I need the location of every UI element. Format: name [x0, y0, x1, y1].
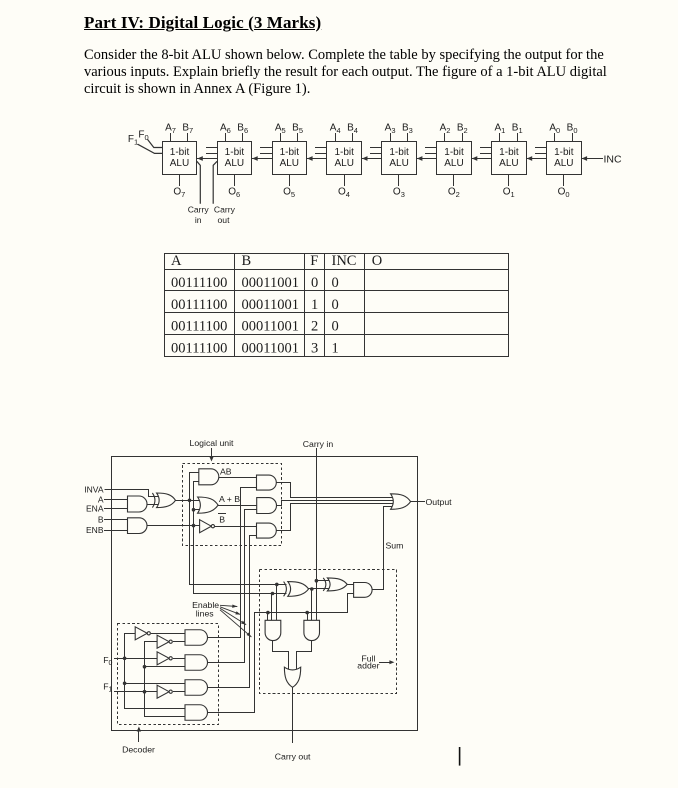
svg-text:1: 1	[109, 687, 113, 694]
svg-text:Sum: Sum	[386, 540, 404, 550]
svg-text:B4: B4	[347, 123, 358, 136]
svg-text:B7: B7	[182, 123, 193, 136]
svg-text:AB: AB	[220, 466, 232, 476]
svg-text:ALU: ALU	[444, 158, 463, 169]
svg-text:1-bit: 1-bit	[170, 147, 190, 158]
svg-text:ALU: ALU	[389, 158, 408, 169]
svg-text:A0: A0	[549, 123, 560, 136]
svg-text:O7: O7	[173, 186, 185, 199]
svg-text:0: 0	[332, 297, 339, 313]
svg-text:Decoder: Decoder	[122, 744, 155, 754]
svg-text:lines: lines	[196, 608, 215, 618]
svg-text:1-bit: 1-bit	[389, 147, 409, 158]
svg-text:ALU: ALU	[499, 158, 518, 169]
svg-text:O1: O1	[503, 186, 515, 199]
svg-text:O3: O3	[393, 186, 405, 199]
svg-text:ALU: ALU	[334, 158, 353, 169]
svg-text:00111100: 00111100	[171, 340, 227, 356]
svg-text:1: 1	[332, 340, 339, 356]
svg-text:F0: F0	[138, 130, 148, 143]
svg-text:O0: O0	[558, 186, 570, 199]
svg-text:1-bit: 1-bit	[554, 147, 574, 158]
svg-text:A + B: A + B	[219, 494, 240, 504]
svg-text:A6: A6	[220, 123, 231, 136]
svg-text:Logical unit: Logical unit	[190, 438, 235, 448]
svg-text:O2: O2	[448, 186, 460, 199]
svg-text:1-bit: 1-bit	[280, 147, 300, 158]
svg-text:2: 2	[311, 319, 318, 335]
svg-text:O5: O5	[283, 186, 295, 199]
svg-text:Output: Output	[426, 497, 453, 507]
svg-text:Carry: Carry	[214, 205, 236, 215]
svg-text:INC: INC	[332, 253, 357, 269]
svg-text:0: 0	[332, 275, 339, 291]
svg-text:A2: A2	[440, 123, 451, 136]
svg-text:adder: adder	[357, 660, 379, 670]
svg-text:B: B	[98, 515, 104, 525]
svg-text:3: 3	[311, 340, 318, 356]
svg-text:1-bit: 1-bit	[499, 147, 519, 158]
svg-text:A4: A4	[330, 123, 341, 136]
svg-text:ALU: ALU	[554, 158, 573, 169]
svg-text:0: 0	[311, 275, 318, 291]
svg-text:F1: F1	[128, 134, 138, 147]
svg-text:B2: B2	[457, 123, 468, 136]
svg-text:00011001: 00011001	[242, 340, 299, 356]
svg-text:B: B	[219, 514, 225, 524]
svg-text:Carry out: Carry out	[275, 751, 311, 761]
svg-text:00011001: 00011001	[242, 297, 299, 313]
svg-text:1: 1	[311, 297, 318, 313]
svg-text:B0: B0	[567, 123, 578, 136]
svg-text:B3: B3	[402, 123, 413, 136]
svg-text:Carry: Carry	[188, 205, 210, 215]
svg-text:A: A	[171, 253, 182, 269]
svg-text:out: out	[218, 215, 231, 225]
svg-text:ALU: ALU	[170, 158, 189, 169]
svg-text:B5: B5	[292, 123, 303, 136]
svg-text:A3: A3	[385, 123, 396, 136]
svg-text:INVA: INVA	[84, 484, 104, 494]
svg-text:B1: B1	[512, 123, 523, 136]
svg-text:B: B	[242, 253, 252, 269]
svg-text:B6: B6	[237, 123, 248, 136]
svg-text:O6: O6	[228, 186, 240, 199]
svg-text:1-bit: 1-bit	[334, 147, 354, 158]
svg-text:00011001: 00011001	[242, 319, 299, 335]
svg-text:A1: A1	[494, 123, 505, 136]
svg-text:in: in	[195, 215, 202, 225]
svg-text:0: 0	[332, 319, 339, 335]
svg-text:00011001: 00011001	[242, 275, 299, 291]
svg-text:F: F	[310, 253, 318, 269]
svg-text:1-bit: 1-bit	[225, 147, 245, 158]
svg-text:ENA: ENA	[86, 504, 104, 514]
svg-text:A7: A7	[165, 123, 176, 136]
svg-text:0: 0	[109, 660, 113, 667]
svg-text:A5: A5	[275, 123, 286, 136]
svg-text:O: O	[372, 253, 382, 269]
svg-text:ALU: ALU	[280, 158, 299, 169]
svg-text:00111100: 00111100	[171, 275, 227, 291]
svg-text:00111100: 00111100	[171, 319, 227, 335]
svg-text:1-bit: 1-bit	[444, 147, 464, 158]
svg-text:ALU: ALU	[225, 158, 244, 169]
svg-text:INC: INC	[604, 153, 623, 165]
svg-text:Carry in: Carry in	[303, 439, 334, 449]
svg-text:00111100: 00111100	[171, 297, 227, 313]
svg-text:O4: O4	[338, 186, 350, 199]
svg-text:ENB: ENB	[86, 525, 104, 535]
